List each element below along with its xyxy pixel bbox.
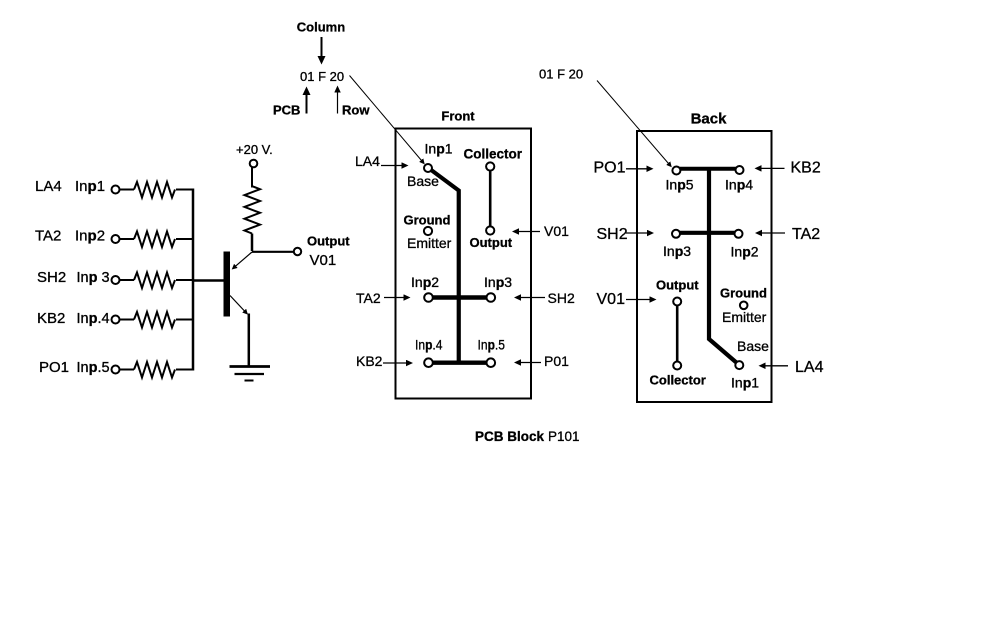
svg-text:TA2: TA2 [35,228,61,245]
svg-text:PCB BlockP101: PCB BlockP101 [475,429,580,444]
svg-text:Emitter: Emitter [722,309,767,325]
svg-text:P01: P01 [544,353,569,369]
svg-text:Inp1: Inp1 [75,178,105,195]
svg-text:TA2: TA2 [792,226,820,243]
svg-text:Output: Output [656,278,699,293]
svg-text:Inp.5: Inp.5 [77,360,110,376]
svg-text:Inp5: Inp5 [666,177,694,193]
svg-text:KB2: KB2 [37,310,65,327]
svg-text:Inp3: Inp3 [663,243,691,259]
svg-text:Column: Column [297,20,345,35]
svg-text:+20 V.: +20 V. [236,142,273,157]
svg-text:01 F 20: 01 F 20 [300,69,344,84]
svg-text:SH2: SH2 [37,269,66,286]
svg-text:V01: V01 [597,291,626,308]
svg-text:Back: Back [691,111,728,128]
svg-text:Inp4: Inp4 [725,177,753,193]
svg-text:Ground: Ground [404,213,451,228]
svg-text:SH2: SH2 [597,226,628,243]
svg-text:Inp 3: Inp 3 [77,270,110,286]
svg-text:Inp.4: Inp.4 [415,337,443,353]
svg-text:V01: V01 [310,252,337,269]
svg-text:Inp2: Inp2 [75,228,105,245]
svg-text:Inp.5: Inp.5 [478,337,506,353]
svg-text:V01: V01 [544,223,569,239]
svg-text:Ground: Ground [720,286,767,301]
svg-text:Inp3: Inp3 [484,274,512,290]
svg-text:KB2: KB2 [356,353,383,369]
svg-text:SH2: SH2 [548,290,575,306]
svg-text:Row: Row [342,103,370,118]
svg-text:Base: Base [737,338,769,354]
svg-text:Inp1: Inp1 [425,141,453,157]
svg-text:Emitter: Emitter [407,235,452,251]
svg-text:Inp1: Inp1 [731,375,759,391]
svg-text:LA4: LA4 [795,359,824,376]
svg-text:PO1: PO1 [594,160,626,177]
svg-text:Front: Front [441,109,475,124]
svg-text:01 F 20: 01 F 20 [539,67,583,82]
svg-text:LA4: LA4 [35,178,62,195]
svg-text:Inp.4: Inp.4 [77,311,110,327]
svg-text:PO1: PO1 [39,359,69,376]
svg-text:Output: Output [307,234,350,249]
svg-text:TA2: TA2 [356,290,381,306]
svg-text:Base: Base [407,173,439,189]
svg-text:Output: Output [470,235,513,250]
svg-text:PCB: PCB [273,103,300,118]
svg-text:Collector: Collector [464,147,523,162]
svg-text:Inp2: Inp2 [731,244,759,260]
svg-text:LA4: LA4 [355,153,380,169]
svg-text:Inp2: Inp2 [411,274,439,290]
svg-text:Collector: Collector [650,373,706,388]
svg-text:KB2: KB2 [791,160,821,177]
